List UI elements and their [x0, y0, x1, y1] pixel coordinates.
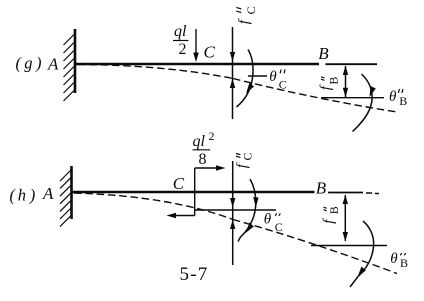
leader line to theta''C label (g) — [248, 75, 267, 77]
horizontal reference line at B (h) — [311, 245, 387, 247]
deflection dimension line f''C (h) — [230, 161, 235, 265]
horizontal reference line at B (g) — [321, 97, 384, 99]
svg-text:B: B — [399, 94, 407, 108]
svg-text:B: B — [400, 256, 408, 270]
svg-text:C: C — [279, 78, 287, 92]
svg-text:B: B — [327, 77, 341, 85]
svg-text:C: C — [244, 6, 258, 14]
label f''C rotated (h) — [235, 152, 255, 168]
rotation arc theta''C (h) — [238, 179, 259, 242]
svg-text:θ: θ — [264, 212, 272, 228]
svg-text:C: C — [275, 220, 283, 234]
label theta''B (h) — [390, 251, 408, 270]
svg-text:f: f — [235, 162, 251, 168]
tangent line C to B dashed (g) — [233, 79, 397, 113]
svg-text:A: A — [47, 54, 59, 73]
svg-text:2: 2 — [209, 129, 215, 143]
svg-text:f: f — [237, 18, 253, 24]
svg-text:A: A — [42, 184, 54, 203]
svg-text:(h): (h) — [10, 186, 36, 205]
beam AB (g) — [76, 63, 377, 66]
svg-text:8: 8 — [199, 151, 207, 168]
svg-text:θ: θ — [269, 69, 277, 85]
svg-text:B: B — [327, 206, 341, 214]
svg-text:C: C — [204, 42, 216, 61]
wall support A (h) — [60, 166, 72, 227]
rotation arc theta''B (g) — [353, 74, 376, 132]
force arrow ql/2 at C (g) — [193, 29, 199, 62]
svg-text:C: C — [241, 152, 255, 160]
svg-text:θ: θ — [390, 251, 398, 267]
horizontal reference line at C (h) — [195, 209, 276, 211]
beam AB (h) — [73, 192, 380, 194]
svg-text:f: f — [321, 218, 337, 224]
svg-text:B: B — [316, 178, 327, 197]
moment couple ql^2/8 at C (h) — [167, 165, 226, 218]
deflection curve A to C dashed (h) — [74, 193, 233, 220]
label theta''B (g) — [389, 89, 407, 108]
svg-text:ql: ql — [174, 23, 187, 40]
label f''B rotated (h) — [321, 206, 341, 224]
label theta''C (h) — [264, 212, 283, 235]
svg-text:2: 2 — [179, 41, 187, 58]
value label ql/2 — [173, 23, 189, 58]
svg-text:B: B — [318, 44, 329, 63]
deflection dimension line f''B (g) — [343, 66, 348, 98]
deflection curve A to C dashed (g) — [78, 65, 233, 79]
label f''B rotated (g) — [318, 77, 341, 91]
wall support A (g) — [64, 29, 76, 101]
value label ql^2/8 — [193, 129, 215, 168]
svg-text:ql: ql — [193, 133, 206, 150]
label theta''C (g) — [269, 69, 287, 92]
svg-text:(g): (g) — [16, 54, 42, 73]
rotation arc theta''C (g) — [237, 50, 255, 108]
rotation arc theta''B (h) — [350, 221, 374, 287]
svg-text:5-7: 5-7 — [180, 264, 209, 285]
svg-text:θ: θ — [389, 89, 397, 105]
svg-text:C: C — [173, 174, 185, 193]
label f''C rotated (g) — [236, 6, 258, 24]
deflection dimension line f''B (h) — [343, 195, 348, 242]
tangent line C to B dashed (h) — [233, 220, 397, 274]
deflection dimension line f''C (g) — [230, 27, 235, 119]
